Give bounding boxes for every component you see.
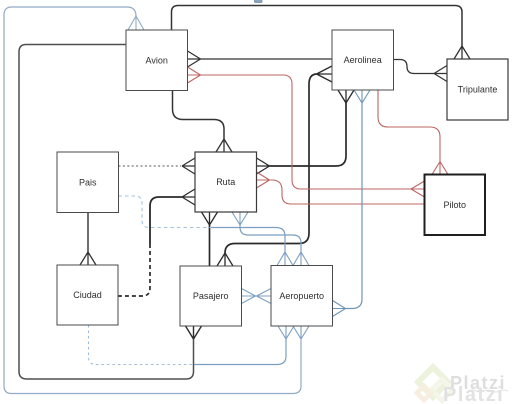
crow's foot black at Ruta right y166 (257, 158, 270, 174)
svg-text:Ciudad: Ciudad (73, 290, 102, 300)
watermark squiggle (468, 390, 508, 392)
svg-text:Piloto: Piloto (443, 200, 466, 210)
svg-text:Tripulante: Tripulante (458, 85, 498, 95)
wire gray: Avion left to Pasajero bottom (19, 45, 194, 380)
wire blue dashed: Pais right to junction (119, 196, 212, 228)
svg-text:Platzi: Platzi (443, 384, 504, 404)
crow's foot black at Ruta left y166 (182, 158, 195, 174)
svg-text:Pasajero: Pasajero (193, 291, 229, 301)
wire black B: Aerolinea left to Pasajero top (225, 74, 317, 253)
wire blue perimeter: Avion top to Aeropuerto bottom (4, 7, 301, 394)
wire blue: Ruta bottom to Aeropuerto top x301 (240, 225, 301, 252)
wire blue solid: junction to Aeropuerto top x285 (211, 228, 285, 253)
crow's foot black at Aerolinea left (317, 66, 333, 82)
svg-text:Pais: Pais (79, 178, 97, 188)
entity Piloto (425, 175, 486, 236)
wire black solid: Ruta left toward Ciudad (150, 197, 182, 244)
crow's foot blue at Aeropuerto right (333, 301, 346, 317)
wire blue dashed: Ciudad bottom to junction (89, 325, 193, 365)
wire red R3: Aerolinea bottom to Piloto top (378, 90, 440, 162)
entity Ciudad (57, 265, 118, 325)
crow's foot red at Piloto top (432, 162, 448, 175)
svg-text:Avion: Avion (146, 56, 168, 66)
crow's foot blue at Avion top (128, 16, 144, 30)
crow's foot blue at Ruta bottom x240 (232, 212, 248, 225)
wire S-curve: Aerolinea right to Tripulante left (394, 60, 435, 74)
svg-text:Aerolinea: Aerolinea (344, 55, 382, 65)
svg-text:Ruta: Ruta (216, 177, 235, 187)
crow's foot black at Tripulante left (434, 66, 447, 82)
watermark platzi logo (417, 367, 453, 400)
wire red R2: Ruta right to Piloto left plain (270, 180, 425, 204)
crow's foot black at Ruta top (216, 139, 232, 152)
wire black: Pais bottom to Ciudad top (87, 213, 89, 253)
ui fragment blue button top (255, 0, 263, 3)
wire black: Aerolinea bottom to Ruta right (270, 103, 347, 166)
wire blue solid: junction to Aeropuerto bottom x286 (194, 339, 286, 365)
wire blue bowtie: Pasajero right to Aeropuerto left (242, 289, 272, 304)
entity Ruta (195, 152, 257, 212)
crow's foot black at Pasajero top (217, 253, 233, 266)
wire black: Avion right to Aerolinea left (201, 58, 333, 60)
crow's foot blue at Aeropuerto bottom x301 (293, 326, 309, 339)
crow's foot dark at Pasajero bottom (186, 326, 202, 339)
wire black top: Avion top to Tripulante top (172, 6, 463, 47)
svg-text:Aeropuerto: Aeropuerto (279, 291, 324, 301)
crow's foot black at Avion right y59 (188, 51, 201, 67)
entity Aeropuerto (271, 266, 333, 327)
crow's foot blue at Aeropuerto top x301 (293, 252, 309, 266)
crow's foot red at Piloto left y189 (411, 181, 425, 197)
crow's foot black at Ruta left y197 (182, 189, 195, 205)
wire dark dotted: Pais right to Ruta left (119, 165, 182, 167)
entity Pais (57, 152, 119, 213)
crow's foot black at Ruta bottom x209 (202, 212, 218, 225)
entity Pasajero (180, 266, 242, 326)
wire black: Ruta bottom to Pasajero top plain (209, 225, 211, 266)
crow's foot red at Avion right y75 (188, 67, 201, 83)
wire red R1: Avion right to Piloto left (201, 75, 412, 189)
entity Avion (126, 30, 188, 91)
wire black: Avion bottom to Ruta top (173, 91, 225, 140)
entity Tripulante (447, 59, 508, 120)
crow's foot black at Tripulante top (454, 46, 470, 59)
crow's foot blue at Aeropuerto bottom x286 (278, 326, 294, 339)
wire black dashed: continuation to Ciudad right (118, 244, 150, 296)
crow's foot black at Aerolinea bottom x346 (338, 90, 354, 103)
crow's foot blue at Aerolinea bottom x362 (354, 90, 370, 103)
crow's foot black at Ciudad top (80, 252, 96, 265)
wire teal: Aerolinea bottom to Aeropuerto right (346, 103, 363, 309)
crow's foot blue at Aeropuerto top x285 (277, 252, 293, 266)
entity Aerolinea (332, 30, 394, 90)
crow's foot red at Ruta right y180 (257, 172, 270, 188)
